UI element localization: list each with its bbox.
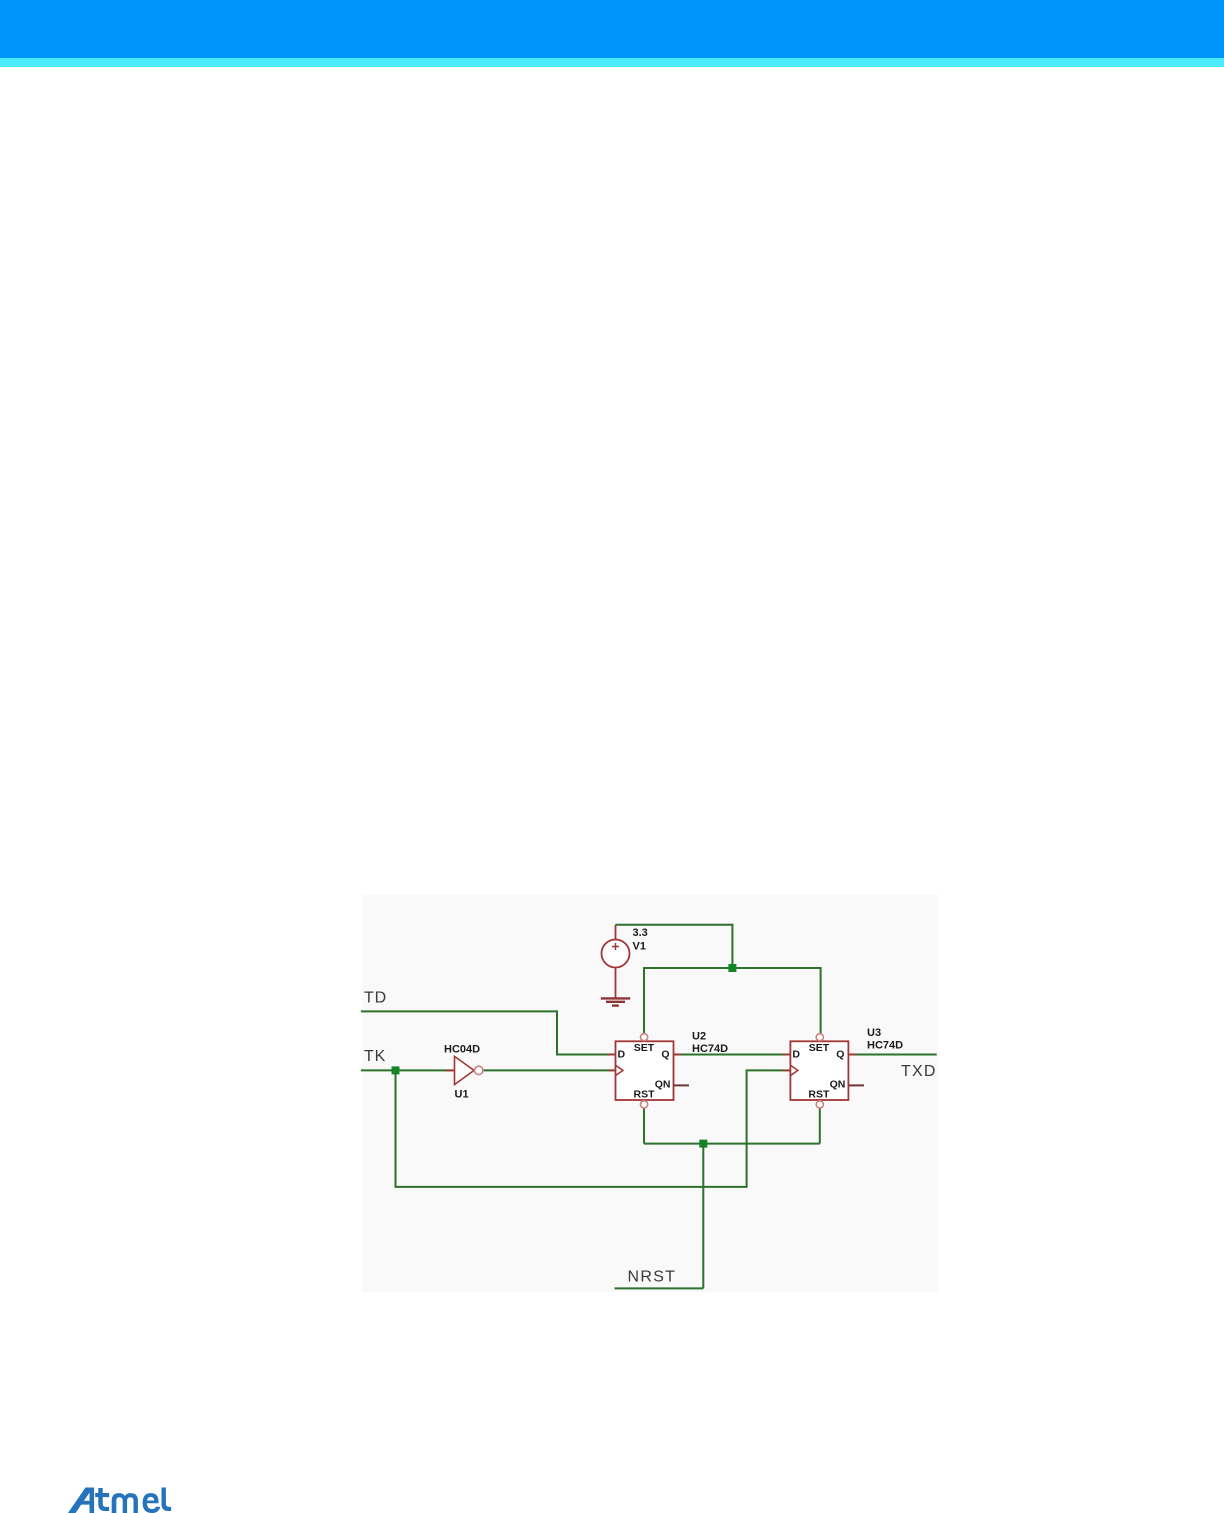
- inverter U1: [446, 1056, 483, 1084]
- svg-text:HC74D: HC74D: [692, 1043, 728, 1055]
- svg-text:QN: QN: [830, 1079, 846, 1091]
- header cyan strip: [0, 58, 1224, 67]
- wire RST rail: [644, 1143, 820, 1145]
- wire NRST rail: [615, 1287, 704, 1289]
- flip-flop U2: [608, 1034, 682, 1108]
- wire U2 RST drop: [643, 1108, 645, 1144]
- svg-text:NRST: NRST: [628, 1268, 677, 1285]
- wire U3 Q to TXD: [850, 1054, 937, 1056]
- pin QN stub U3: [848, 1084, 864, 1086]
- voltage source V1: [602, 925, 630, 998]
- svg-text:D: D: [792, 1048, 800, 1060]
- svg-text:3.3: 3.3: [633, 927, 648, 939]
- wire TD net: [361, 1011, 615, 1054]
- pin QN stub U2: [674, 1084, 690, 1086]
- svg-text:TK: TK: [364, 1048, 386, 1065]
- svg-text:RST: RST: [808, 1089, 830, 1101]
- svg-text:SET: SET: [634, 1042, 655, 1054]
- ground: [601, 998, 630, 1005]
- svg-text:QN: QN: [655, 1079, 671, 1091]
- svg-text:U1: U1: [455, 1089, 469, 1101]
- svg-text:V1: V1: [633, 941, 646, 953]
- junction RST node: [699, 1140, 707, 1148]
- svg-text:RST: RST: [634, 1089, 656, 1101]
- wire V1 top rail to VCC corner: [616, 924, 733, 926]
- wire U2 Q to U3 D: [674, 1054, 790, 1056]
- junction TK node: [392, 1066, 400, 1074]
- wire NRST vertical: [702, 1144, 704, 1289]
- wire U1 output to U2 clock: [483, 1069, 615, 1071]
- wire TK branch to U3 clock: [396, 1070, 791, 1187]
- wire VCC corner drop: [731, 924, 733, 968]
- svg-text:HC74D: HC74D: [867, 1040, 903, 1052]
- wire SET drop to U3: [820, 967, 822, 1034]
- svg-text:U2: U2: [692, 1031, 706, 1043]
- svg-text:U3: U3: [867, 1027, 881, 1039]
- header bar: [0, 0, 1224, 58]
- svg-text:D: D: [618, 1048, 626, 1060]
- flip-flop U3: [782, 1034, 856, 1108]
- schematic backing: [362, 895, 938, 1292]
- svg-text:SET: SET: [809, 1042, 830, 1054]
- svg-text:Q: Q: [836, 1048, 844, 1060]
- wire SET drop to U2: [643, 967, 645, 1034]
- svg-text:Q: Q: [661, 1048, 669, 1060]
- svg-text:TD: TD: [364, 990, 387, 1007]
- wire TK net: [361, 1069, 454, 1071]
- Atmel logo: [68, 1488, 171, 1513]
- svg-text:HC04D: HC04D: [444, 1044, 480, 1056]
- junction VCC node: [728, 964, 736, 972]
- wire SET rail: [644, 967, 821, 969]
- wire U3 RST drop: [819, 1108, 821, 1144]
- svg-text:TXD: TXD: [901, 1063, 937, 1080]
